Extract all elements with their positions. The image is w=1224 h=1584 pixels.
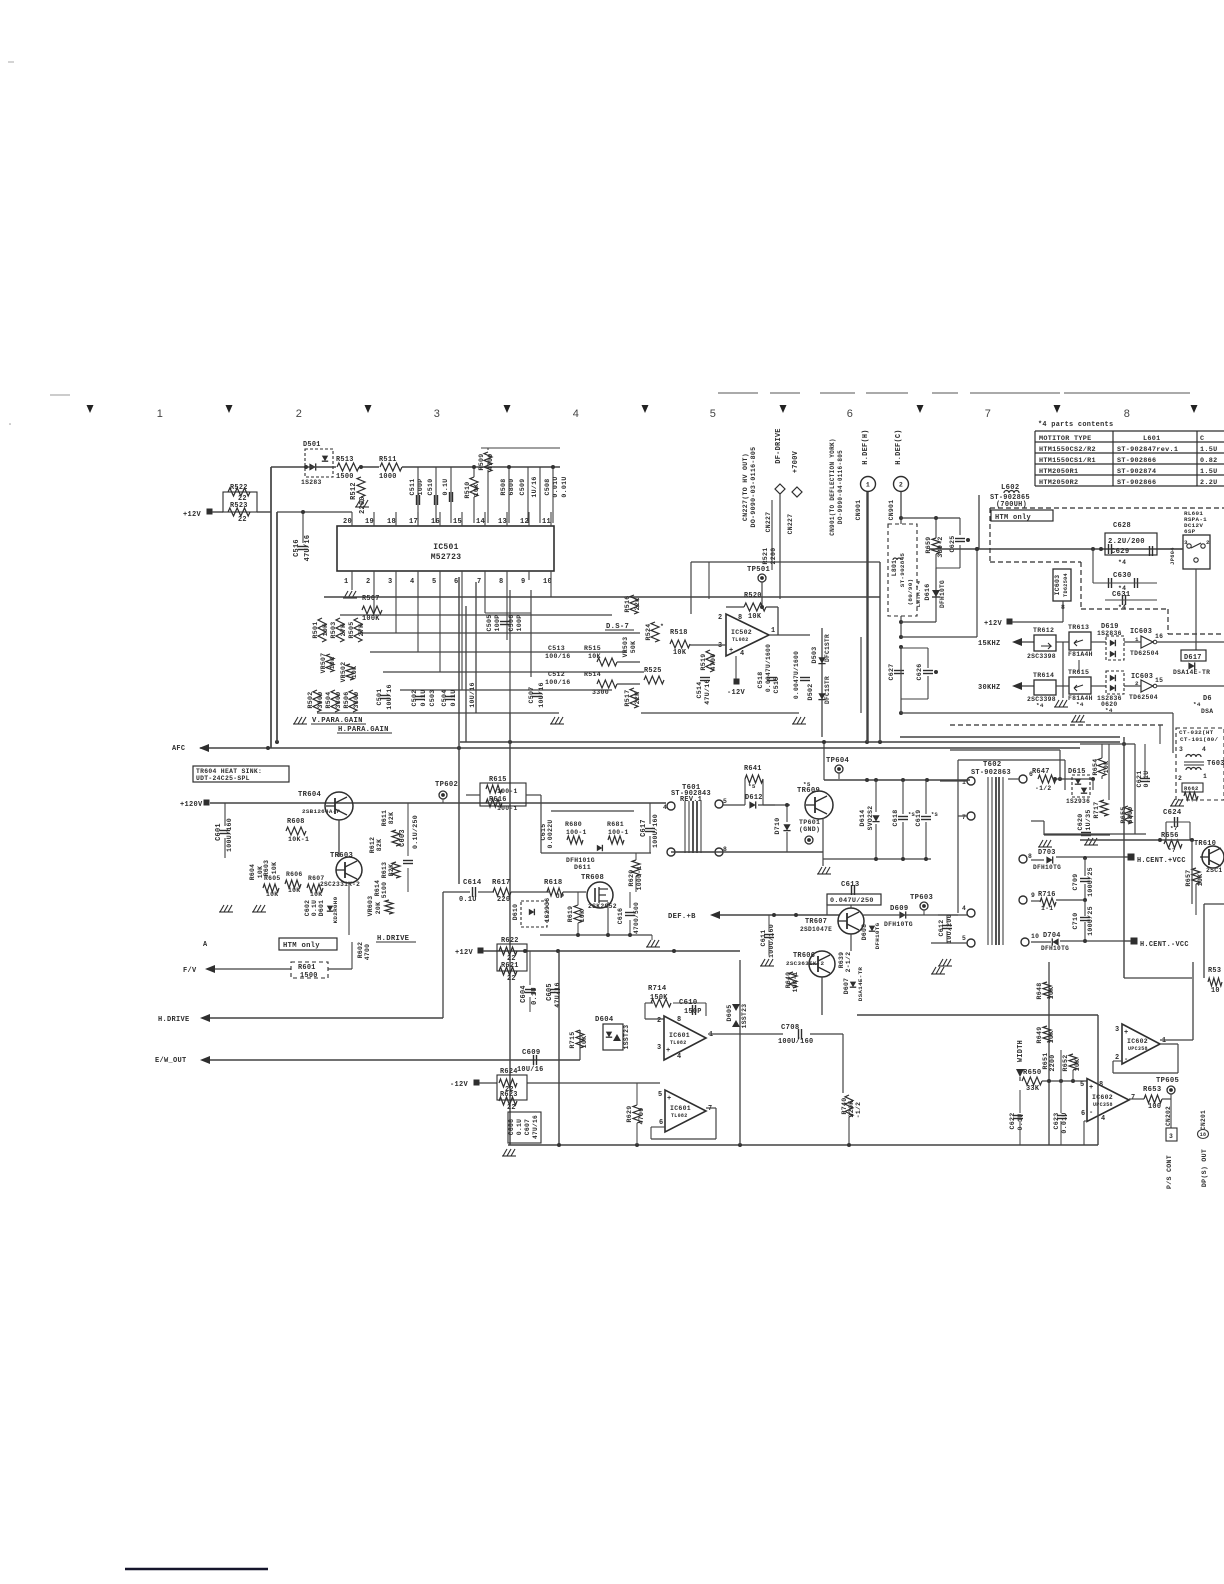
svg-text:CN901: CN901	[855, 500, 862, 521]
svg-text:0.0047U/1600: 0.0047U/1600	[765, 644, 772, 692]
svg-text:*5: *5	[748, 783, 756, 790]
svg-text:D611: D611	[574, 864, 591, 871]
svg-text:10U/16: 10U/16	[386, 684, 393, 710]
svg-text:R612: R612	[369, 837, 376, 854]
svg-text:R611: R611	[381, 810, 388, 827]
svg-text:10U/16: 10U/16	[517, 1066, 544, 1074]
svg-text:22: 22	[507, 975, 516, 983]
svg-text:TR610: TR610	[1194, 840, 1216, 848]
svg-text:1S283: 1S283	[301, 479, 322, 486]
svg-text:C616: C616	[617, 908, 624, 925]
svg-text:10K-1: 10K-1	[288, 836, 309, 843]
svg-text:IC501: IC501	[433, 543, 459, 552]
svg-text:*5: *5	[803, 781, 811, 788]
svg-text:2: 2	[1178, 775, 1182, 782]
svg-text:2SD1047E: 2SD1047E	[800, 926, 832, 933]
svg-text:R53: R53	[1208, 967, 1221, 975]
svg-text:82K: 82K	[376, 839, 383, 851]
svg-text:13: 13	[498, 518, 507, 526]
svg-text:TD62504: TD62504	[1129, 694, 1158, 701]
svg-text:17: 17	[409, 518, 418, 526]
svg-text:C710: C710	[1072, 912, 1079, 929]
svg-text:-1/2: -1/2	[1035, 785, 1052, 792]
svg-text:1500: 1500	[300, 972, 318, 980]
svg-text:C509: C509	[519, 478, 526, 495]
svg-text:TD62504: TD62504	[1130, 650, 1159, 657]
svg-text:C620: C620	[1077, 813, 1084, 830]
svg-text:R619: R619	[567, 906, 574, 923]
svg-text:+12V: +12V	[183, 511, 202, 519]
svg-text:IC601: IC601	[670, 1105, 691, 1112]
svg-text:R622: R622	[501, 937, 519, 945]
svg-text:8: 8	[738, 614, 742, 622]
svg-text:1: 1	[1203, 773, 1207, 780]
svg-text:DFH10TG: DFH10TG	[1033, 864, 1061, 871]
svg-text:2: 2	[296, 408, 302, 420]
svg-text:150P: 150P	[684, 1008, 702, 1016]
svg-text:R514: R514	[584, 671, 601, 678]
svg-text:1U/35: 1U/35	[1085, 809, 1092, 830]
svg-text:30KHZ: 30KHZ	[978, 684, 1001, 692]
svg-text:R607: R607	[308, 875, 325, 882]
svg-text:R714: R714	[648, 985, 667, 993]
svg-text:2SC3398: 2SC3398	[1027, 653, 1056, 660]
svg-text:*: *	[660, 623, 664, 630]
svg-text:0.1U: 0.1U	[459, 896, 477, 904]
svg-text:HTM only: HTM only	[283, 942, 320, 950]
svg-text:2SC1: 2SC1	[1206, 867, 1223, 874]
svg-text:-: -	[1089, 1109, 1094, 1117]
svg-text:C505: C505	[486, 614, 493, 631]
svg-text:10K: 10K	[1048, 987, 1055, 1000]
svg-text:6: 6	[454, 578, 459, 586]
svg-text:47U/16: 47U/16	[532, 1115, 539, 1139]
svg-text:SVO2S2: SVO2S2	[867, 806, 874, 831]
svg-text:C603: C603	[399, 829, 407, 847]
svg-text:3: 3	[1115, 1026, 1119, 1034]
svg-text:REV.1: REV.1	[680, 796, 702, 804]
svg-text:8: 8	[499, 578, 504, 586]
svg-text:C504: C504	[441, 689, 448, 706]
svg-text:100U/160: 100U/160	[652, 814, 659, 848]
svg-text:T603: T603	[1207, 760, 1224, 768]
svg-text:*4: *4	[1118, 559, 1126, 566]
svg-text:18: 18	[1200, 1132, 1207, 1138]
svg-text:TP501: TP501	[747, 566, 770, 574]
svg-text:3300: 3300	[353, 691, 360, 708]
svg-text:10K: 10K	[1197, 874, 1204, 887]
svg-text:100-1: 100-1	[608, 829, 629, 836]
svg-text:3900: 3900	[317, 691, 324, 708]
svg-text:IC603: IC603	[1130, 628, 1152, 636]
svg-text:1: 1	[344, 578, 349, 586]
svg-text:1: 1	[709, 1031, 713, 1039]
svg-text:1: 1	[771, 627, 775, 635]
svg-text:10K: 10K	[322, 624, 329, 637]
svg-text:C607: C607	[524, 1119, 531, 1136]
svg-text:R662: R662	[1184, 785, 1199, 792]
svg-text:R606: R606	[286, 871, 303, 878]
svg-text:TR612: TR612	[1033, 627, 1054, 634]
svg-text:R517: R517	[624, 689, 631, 706]
svg-text:ST-902866: ST-902866	[1117, 457, 1156, 465]
svg-text:6: 6	[1081, 1110, 1085, 1118]
svg-text:R505: R505	[348, 621, 355, 638]
svg-text:0.1U: 0.1U	[531, 987, 539, 1005]
svg-text:8: 8	[1028, 853, 1032, 860]
svg-text:5: 5	[962, 935, 966, 942]
svg-text:R681: R681	[607, 821, 624, 828]
svg-text:DSA: DSA	[1201, 708, 1213, 715]
svg-text:P/S CONT: P/S CONT	[1166, 1155, 1173, 1189]
svg-text:R623: R623	[500, 1091, 518, 1099]
svg-text:10K: 10K	[351, 666, 358, 678]
svg-text:100-1: 100-1	[497, 788, 518, 795]
svg-text:R512: R512	[350, 482, 358, 500]
svg-text:C630: C630	[1113, 572, 1131, 580]
svg-text:6SP: 6SP	[1184, 528, 1196, 535]
svg-text:D6: D6	[1203, 695, 1212, 703]
svg-text:5: 5	[432, 578, 437, 586]
svg-text:IC602: IC602	[1127, 1038, 1148, 1045]
svg-text:1S2936: 1S2936	[1066, 798, 1090, 805]
svg-text:C619: C619	[915, 809, 922, 826]
svg-text:0.1U: 0.1U	[450, 689, 457, 706]
svg-text:TR607: TR607	[805, 918, 827, 926]
svg-text:TL082: TL082	[670, 1040, 687, 1046]
svg-text:100-1: 100-1	[497, 805, 518, 812]
svg-text:H.DEF(H): H.DEF(H)	[862, 429, 870, 464]
svg-text:HTM2050R2: HTM2050R2	[1039, 479, 1078, 487]
svg-text:1500: 1500	[336, 473, 354, 481]
svg-text:IC502: IC502	[731, 629, 752, 636]
svg-text:2: 2	[718, 614, 722, 622]
svg-text:0.82: 0.82	[1200, 457, 1218, 465]
svg-text:0.0047U/1600: 0.0047U/1600	[793, 651, 800, 699]
svg-text:E/W_OUT: E/W_OUT	[155, 1057, 187, 1065]
svg-text:6: 6	[659, 1119, 663, 1127]
svg-text:+12V: +12V	[984, 620, 1003, 628]
svg-text:TR614: TR614	[1033, 672, 1054, 679]
svg-text:10K: 10K	[673, 649, 687, 657]
svg-text:7: 7	[708, 1105, 712, 1113]
svg-text:D703: D703	[1038, 849, 1056, 857]
svg-text:2: 2	[899, 482, 903, 489]
svg-text:C516: C516	[293, 539, 301, 557]
svg-text:20: 20	[343, 518, 352, 526]
svg-text:DFH101G: DFH101G	[566, 857, 595, 864]
svg-text:C606: C606	[508, 1119, 515, 1136]
svg-text:DSA14E-TR: DSA14E-TR	[1173, 669, 1210, 676]
svg-text:220: 220	[497, 896, 510, 904]
svg-text:1-1: 1-1	[1041, 905, 1053, 912]
svg-text:R657: R657	[1185, 869, 1192, 886]
svg-text:R502: R502	[307, 691, 314, 708]
svg-text:C518: C518	[757, 671, 764, 688]
svg-text:10K: 10K	[473, 484, 480, 497]
svg-text:16: 16	[431, 518, 440, 526]
svg-text:1: 1	[866, 482, 870, 489]
svg-text:R624: R624	[500, 1068, 518, 1076]
svg-text:4700: 4700	[710, 653, 717, 670]
svg-text:4: 4	[663, 804, 667, 811]
svg-text:TR604 HEAT SINK:: TR604 HEAT SINK:	[196, 768, 262, 775]
svg-text:(GND): (GND)	[799, 826, 820, 833]
svg-text:WIDTH: WIDTH	[1017, 1040, 1025, 1062]
svg-text:100/16: 100/16	[545, 679, 571, 686]
svg-text:VR503: VR503	[622, 637, 629, 658]
svg-text:0.1U: 0.1U	[516, 1119, 523, 1136]
svg-text:R648: R648	[1036, 982, 1043, 999]
svg-text:10U/16: 10U/16	[538, 682, 545, 708]
svg-text:CN202: CN202	[1165, 1106, 1172, 1126]
svg-text:R604: R604	[249, 864, 256, 881]
svg-text:+: +	[1089, 1084, 1094, 1092]
svg-text:D610: D610	[512, 904, 519, 921]
svg-text:C506: C506	[508, 614, 515, 631]
svg-text:1SST23: 1SST23	[623, 1025, 630, 1050]
svg-text:C609: C609	[522, 1049, 540, 1057]
svg-text:H.CENT.+VCC: H.CENT.+VCC	[1137, 857, 1186, 865]
svg-text:5100: 5100	[381, 882, 388, 899]
svg-text:R511: R511	[379, 456, 397, 464]
svg-text:*4: *4	[1076, 701, 1084, 708]
svg-text:0.1U: 0.1U	[311, 900, 318, 917]
svg-text:R510: R510	[464, 481, 471, 498]
svg-text:R647: R647	[1032, 768, 1050, 776]
svg-text:3300: 3300	[592, 689, 609, 696]
svg-text:100U/160: 100U/160	[778, 1038, 813, 1046]
svg-text:9: 9	[521, 578, 526, 586]
svg-text:2SC2331K-2: 2SC2331K-2	[320, 881, 360, 888]
svg-text:DFH10TG: DFH10TG	[884, 921, 913, 928]
svg-text:100/16: 100/16	[545, 653, 571, 660]
svg-text:R650: R650	[1023, 1069, 1041, 1077]
svg-text:8: 8	[1099, 1081, 1103, 1089]
svg-text:14: 14	[476, 518, 485, 526]
svg-text:DF-DRIVE: DF-DRIVE	[775, 428, 783, 463]
svg-text:CN901(TO DEFLECTION YORK): CN901(TO DEFLECTION YORK)	[829, 438, 836, 536]
svg-text:R629: R629	[626, 1105, 633, 1122]
svg-text:R649: R649	[1036, 1026, 1043, 1043]
svg-text:CN227(TO HV OUT): CN227(TO HV OUT)	[742, 453, 749, 521]
svg-text:D616: D616	[924, 583, 931, 600]
svg-text:+: +	[729, 647, 734, 655]
svg-text:0.1U/250: 0.1U/250	[412, 815, 419, 849]
svg-text:150K: 150K	[650, 994, 668, 1002]
svg-text:IC601: IC601	[669, 1032, 690, 1039]
svg-text:R653: R653	[1143, 1086, 1161, 1094]
svg-text:ST-902866: ST-902866	[1117, 479, 1156, 487]
svg-text:3: 3	[1184, 539, 1188, 546]
svg-text:15KHZ: 15KHZ	[978, 640, 1001, 648]
svg-text:3: 3	[1169, 1133, 1173, 1140]
svg-text:TP602: TP602	[435, 781, 458, 789]
svg-text:82K: 82K	[388, 812, 395, 824]
svg-text:3300: 3300	[335, 691, 342, 708]
svg-text:C618: C618	[892, 809, 899, 826]
svg-text:10U/16: 10U/16	[469, 682, 476, 708]
svg-text:R608: R608	[287, 818, 305, 826]
svg-text:15: 15	[453, 518, 462, 526]
svg-text:27K: 27K	[340, 624, 347, 637]
svg-text:R524: R524	[645, 623, 652, 640]
svg-text:R516: R516	[624, 595, 631, 612]
svg-text:CT-032(HT: CT-032(HT	[1179, 729, 1214, 736]
svg-text:C515: C515	[773, 676, 780, 693]
svg-text:-12V: -12V	[450, 1081, 469, 1089]
svg-text:R605: R605	[264, 875, 281, 882]
svg-text:KD2R0H0: KD2R0H0	[332, 896, 339, 923]
svg-text:DEF.+B: DEF.+B	[668, 913, 696, 921]
svg-text:22: 22	[507, 1104, 516, 1112]
svg-text:D612: D612	[745, 794, 763, 802]
svg-text:(80/90): (80/90)	[907, 579, 914, 606]
svg-text:20K: 20K	[375, 902, 382, 914]
svg-text:-12V: -12V	[727, 689, 746, 697]
svg-text:R659: R659	[925, 536, 932, 553]
svg-text:TP601: TP601	[799, 819, 820, 826]
svg-text:4700/500: 4700/500	[633, 902, 640, 934]
svg-text:DP(S) OUT: DP(S) OUT	[1201, 1149, 1208, 1187]
svg-text:R615: R615	[489, 776, 507, 784]
svg-text:R641: R641	[744, 765, 762, 773]
svg-text:ST-902863: ST-902863	[971, 769, 1011, 777]
svg-text:C614: C614	[463, 879, 482, 887]
svg-text:10K: 10K	[310, 891, 322, 898]
svg-text:TR613: TR613	[1068, 624, 1089, 631]
svg-text:C511: C511	[409, 478, 416, 495]
svg-text:L801: L801	[891, 560, 898, 577]
svg-text:*S: *S	[931, 812, 939, 818]
svg-text:R639: R639	[838, 952, 845, 969]
svg-text:2SB1264A-P: 2SB1264A-P	[302, 808, 341, 815]
svg-text:1.5U: 1.5U	[1200, 468, 1218, 476]
svg-text:0.01U: 0.01U	[561, 476, 568, 497]
svg-text:R506: R506	[343, 691, 350, 708]
svg-text:5: 5	[723, 798, 727, 805]
svg-text:HTM1550CS1/R1: HTM1550CS1/R1	[1039, 457, 1096, 465]
svg-text:HTM2050R1: HTM2050R1	[1039, 468, 1078, 476]
svg-text:UPC358: UPC358	[1093, 1102, 1113, 1108]
svg-text:TP603: TP603	[910, 894, 933, 902]
svg-text:4700: 4700	[487, 453, 494, 470]
svg-text:H.DRIVE: H.DRIVE	[158, 1016, 190, 1024]
svg-text:D605: D605	[726, 1004, 733, 1021]
svg-text:0.01U: 0.01U	[552, 476, 559, 497]
svg-text:DFH10TG: DFH10TG	[1041, 945, 1069, 952]
svg-text:-: -	[1124, 1056, 1129, 1064]
svg-text:18: 18	[387, 518, 396, 526]
svg-text:4: 4	[962, 905, 966, 912]
svg-text:CN227: CN227	[765, 512, 772, 533]
svg-text:CN201: CN201	[1200, 1110, 1207, 1130]
svg-text:C709: C709	[1072, 873, 1079, 890]
svg-text:2: 2	[1206, 539, 1210, 546]
svg-text:C610: C610	[679, 999, 697, 1007]
svg-text:C617: C617	[640, 819, 648, 837]
svg-text:F81A4H: F81A4H	[1068, 651, 1093, 658]
svg-text:5: 5	[658, 1091, 662, 1099]
svg-text:TP605: TP605	[1156, 1077, 1179, 1085]
svg-text:R603: R603	[263, 860, 270, 877]
svg-text:100K: 100K	[362, 615, 380, 623]
svg-text:8: 8	[677, 1016, 681, 1024]
svg-text:D608: D608	[861, 924, 868, 941]
svg-text:R654: R654	[1092, 758, 1099, 775]
svg-text:22: 22	[238, 516, 247, 524]
svg-text:10: 10	[1211, 987, 1220, 995]
svg-text:11: 11	[542, 518, 551, 526]
svg-text:UDT-24C25-SPL: UDT-24C25-SPL	[196, 775, 250, 782]
svg-text:TL082: TL082	[671, 1113, 688, 1119]
svg-text:10K: 10K	[1074, 1059, 1081, 1072]
svg-text:R523: R523	[230, 502, 248, 510]
svg-text:R521: R521	[762, 547, 769, 564]
svg-text:IC602: IC602	[1092, 1094, 1113, 1101]
svg-text:50K: 50K	[630, 641, 637, 653]
svg-text:+: +	[1124, 1029, 1129, 1037]
svg-text:VR502: VR502	[340, 662, 347, 683]
svg-text:DFC1STR: DFC1STR	[824, 676, 831, 704]
svg-text:HTM only: HTM only	[995, 514, 1032, 522]
svg-text:C708: C708	[781, 1024, 799, 1032]
svg-text:TR608: TR608	[581, 874, 604, 882]
svg-text:10K: 10K	[266, 891, 278, 898]
svg-text:DFH10TG: DFH10TG	[874, 922, 881, 949]
svg-text:100-1: 100-1	[566, 829, 587, 836]
svg-text:3: 3	[434, 408, 440, 420]
svg-text:*4: *4	[1105, 707, 1113, 714]
svg-text:+: +	[667, 1095, 672, 1103]
svg-text:ST-902845: ST-902845	[899, 553, 906, 588]
svg-text:DSA14E-TR: DSA14E-TR	[857, 967, 864, 1002]
svg-text:TP604: TP604	[826, 757, 849, 765]
svg-text:HTM1550CS2/R2: HTM1550CS2/R2	[1039, 446, 1096, 454]
svg-text:4: 4	[410, 578, 415, 586]
svg-text:C: C	[1200, 435, 1204, 443]
svg-text:1S2936: 1S2936	[544, 898, 551, 923]
svg-text:R501: R501	[312, 621, 319, 638]
svg-text:22K: 22K	[634, 598, 641, 611]
svg-text:R509: R509	[478, 453, 485, 470]
svg-text:*4: *4	[1193, 701, 1201, 708]
svg-text:TL082: TL082	[732, 637, 749, 643]
svg-text:47U/16: 47U/16	[704, 679, 711, 705]
svg-text:L601: L601	[1143, 435, 1161, 443]
svg-text:*4: *4	[1118, 604, 1126, 611]
svg-text:R507: R507	[362, 595, 380, 603]
svg-text:27K: 27K	[358, 624, 365, 637]
svg-text:M52723: M52723	[431, 553, 462, 562]
svg-text:1.5U: 1.5U	[1200, 446, 1218, 454]
svg-text:R601: R601	[298, 964, 316, 972]
svg-text:4: 4	[573, 408, 579, 420]
svg-text:10K: 10K	[271, 862, 278, 874]
svg-text:CN901: CN901	[888, 500, 895, 521]
svg-text:R508: R508	[500, 478, 507, 495]
svg-text:2200: 2200	[359, 496, 367, 514]
svg-text:7: 7	[1131, 1094, 1135, 1102]
svg-text:+12V: +12V	[455, 949, 474, 957]
svg-text:3: 3	[657, 1044, 661, 1052]
svg-text:JP: JP	[556, 893, 564, 900]
svg-text:0.0022U: 0.0022U	[547, 820, 554, 849]
svg-text:+700V: +700V	[792, 450, 800, 473]
svg-text:100P: 100P	[494, 614, 501, 631]
svg-text:R520: R520	[744, 592, 762, 600]
svg-text:1U/16: 1U/16	[531, 476, 538, 497]
